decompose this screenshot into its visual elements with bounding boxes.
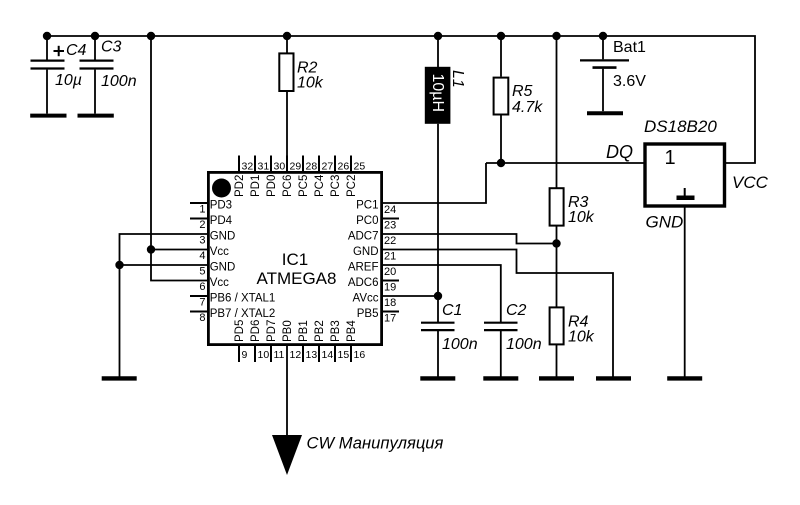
svg-text:30: 30 — [274, 160, 286, 172]
svg-text:7: 7 — [199, 297, 205, 309]
svg-text:AVcc: AVcc — [353, 293, 379, 305]
ground R4 — [539, 376, 574, 380]
svg-text:100n: 100n — [506, 336, 542, 353]
ground C3 — [78, 114, 114, 118]
svg-text:PD0: PD0 — [266, 175, 278, 197]
capacitor C4 — [31, 42, 87, 89]
svg-text:4: 4 — [199, 250, 205, 262]
junction dot Vcc column rail — [147, 32, 155, 40]
svg-text:10: 10 — [258, 349, 270, 361]
junction dot GND pins 3-5 — [115, 261, 123, 269]
svg-text:L1: L1 — [449, 70, 466, 88]
junction dot AVcc C1 — [434, 292, 442, 300]
svg-text:6: 6 — [199, 281, 205, 293]
svg-text:PB6 / XTAL1: PB6 / XTAL1 — [210, 293, 276, 305]
svg-text:C1: C1 — [442, 302, 462, 319]
ground left GND column — [102, 376, 137, 380]
svg-text:18: 18 — [384, 297, 396, 309]
svg-text:DS18B20: DS18B20 — [644, 117, 717, 136]
capacitor C1 — [421, 302, 478, 353]
svg-text:100n: 100n — [442, 336, 478, 353]
IC1 right pin numbers 24-17 — [384, 204, 396, 325]
wire pin21 GND to ground — [383, 250, 613, 377]
svg-text:32: 32 — [242, 160, 254, 172]
IC1 right pin stubs — [383, 219, 399, 312]
svg-text:IC1: IC1 — [282, 250, 308, 269]
svg-text:PB0: PB0 — [282, 320, 294, 342]
ground C2 — [483, 376, 518, 380]
svg-text:2: 2 — [199, 219, 205, 231]
svg-text:PB5: PB5 — [357, 308, 379, 320]
junction dot C3 rail — [91, 32, 99, 40]
svg-text:PC3: PC3 — [330, 175, 342, 197]
wire pin4 Vcc — [151, 249, 208, 251]
svg-text:23: 23 — [384, 220, 396, 232]
svg-text:ADC7: ADC7 — [348, 231, 379, 243]
IC1 left pin numbers 1-8 — [199, 204, 205, 325]
svg-text:28: 28 — [306, 160, 318, 172]
svg-text:27: 27 — [322, 160, 334, 172]
svg-text:Vcc: Vcc — [210, 277, 229, 289]
wire pin22 ADC7 to divider node — [383, 234, 557, 244]
svg-text:14: 14 — [322, 349, 334, 361]
junction dot C4 rail — [43, 32, 51, 40]
capacitor C2 — [484, 302, 542, 353]
svg-text:CW Манипуляция: CW Манипуляция — [307, 434, 444, 453]
svg-text:C3: C3 — [101, 39, 122, 56]
wire C1 to ground — [437, 330, 439, 377]
svg-text:13: 13 — [306, 349, 318, 361]
IC1 bottom pin numbers 9-16 — [242, 349, 366, 361]
capacitor C3 — [80, 39, 137, 91]
wire pin24 PC1 to DQ — [383, 163, 486, 203]
ground symbol inside DS18B20 — [677, 188, 695, 198]
svg-text:10k: 10k — [568, 329, 595, 346]
svg-text:GND: GND — [210, 231, 236, 243]
inductor L1 — [425, 67, 466, 124]
wire C3 lead — [94, 36, 96, 60]
svg-text:PB4: PB4 — [346, 320, 358, 342]
IC1 bottom pin names — [234, 320, 358, 342]
wire R3 to R4 node — [556, 226, 558, 308]
svg-text:PD3: PD3 — [210, 200, 232, 212]
svg-text:PC4: PC4 — [314, 174, 326, 197]
svg-text:10k: 10k — [568, 209, 595, 226]
svg-text:GND: GND — [353, 246, 379, 258]
svg-text:PD7: PD7 — [266, 320, 278, 342]
svg-text:C4: C4 — [66, 42, 87, 59]
wire R2 top lead — [286, 36, 288, 53]
wire DS18B20 GND to ground — [684, 207, 686, 377]
svg-text:PC1: PC1 — [356, 200, 378, 212]
svg-text:3: 3 — [199, 235, 205, 247]
junction dot R5 rail — [497, 32, 505, 40]
svg-text:16: 16 — [354, 349, 366, 361]
ground C1 — [420, 376, 455, 380]
svg-text:GND: GND — [646, 213, 684, 232]
wire R4 to ground — [556, 344, 558, 376]
junction dot R3 rail — [552, 32, 560, 40]
junction dot Vcc pins 4-6 — [147, 245, 155, 253]
wire L1 top lead — [437, 36, 439, 67]
svg-text:PD2: PD2 — [234, 175, 246, 197]
svg-text:8: 8 — [199, 312, 205, 324]
svg-text:VCC: VCC — [732, 173, 769, 192]
svg-text:Bat1: Bat1 — [613, 39, 646, 56]
IC1 top pin names — [234, 174, 358, 197]
wire R3 top lead — [556, 36, 558, 188]
wire R5 top lead — [500, 36, 502, 77]
ground pin21 GND wire — [596, 376, 631, 380]
svg-text:PB2: PB2 — [314, 320, 326, 342]
svg-text:15: 15 — [338, 349, 350, 361]
wire pin20 AREF to C2 — [383, 265, 501, 323]
IC1 left pin stubs — [190, 203, 208, 312]
svg-text:GND: GND — [210, 262, 236, 274]
wire pin12 PB0 to CW output — [286, 346, 288, 438]
svg-text:5: 5 — [199, 266, 205, 278]
svg-text:26: 26 — [338, 160, 350, 172]
wire Vcc column to pins 4 and 6 — [151, 36, 208, 281]
svg-text:PD6: PD6 — [250, 320, 262, 342]
svg-text:31: 31 — [258, 160, 270, 172]
IC1 right pin names — [348, 200, 379, 321]
svg-text:10k: 10k — [297, 74, 324, 91]
svg-text:ATMEGA8: ATMEGA8 — [257, 269, 337, 288]
IC IC1 ATMEGA8 body — [208, 172, 381, 344]
svg-text:PC0: PC0 — [356, 215, 378, 227]
junction dot Bat1 rail — [599, 32, 607, 40]
junction dot divider node — [552, 239, 560, 247]
wire VCC top rail — [47, 36, 755, 163]
temperature sensor DS18B20 body with pin 1 — [645, 144, 725, 206]
svg-text:PC2: PC2 — [346, 175, 358, 197]
node CW output arrow — [272, 435, 302, 475]
resistor R4 — [550, 307, 595, 345]
svg-text:4.7k: 4.7k — [512, 99, 543, 116]
wire Bat1 top lead — [602, 36, 604, 59]
battery Bat1 — [580, 39, 646, 90]
svg-text:29: 29 — [290, 160, 302, 172]
svg-text:12: 12 — [290, 349, 302, 361]
wire C4 to ground — [46, 70, 48, 114]
junction dot R2 rail — [283, 32, 291, 40]
svg-text:ADC6: ADC6 — [348, 277, 379, 289]
wire C3 to ground — [94, 70, 96, 114]
svg-text:PB3: PB3 — [330, 320, 342, 342]
IC1 top pin numbers 32-25 — [242, 160, 366, 172]
svg-text:25: 25 — [354, 160, 366, 172]
svg-text:PD5: PD5 — [234, 320, 246, 342]
junction dot R5 DQ — [497, 159, 505, 167]
svg-text:R5: R5 — [512, 83, 533, 100]
ground DS18B20 — [667, 376, 702, 380]
svg-text:10µ: 10µ — [55, 72, 82, 89]
svg-text:PC5: PC5 — [298, 175, 310, 197]
wire GND column pins 3,5 to ground — [120, 234, 209, 377]
svg-text:17: 17 — [384, 313, 396, 325]
svg-text:Vcc: Vcc — [210, 246, 229, 258]
svg-text:10µH: 10µH — [429, 74, 446, 113]
svg-text:19: 19 — [384, 282, 396, 294]
svg-text:C2: C2 — [506, 302, 527, 319]
IC1 left pin names — [210, 200, 276, 321]
wire pin18 AVcc to C1 node — [383, 295, 438, 297]
resistor R5 — [494, 78, 544, 116]
wire R2 bottom lead to pin29 — [286, 91, 288, 171]
svg-text:22: 22 — [384, 235, 396, 247]
svg-text:1: 1 — [665, 147, 676, 169]
IC1 bottom pin stubs — [239, 346, 351, 362]
ground Bat1 — [587, 111, 623, 115]
svg-text:DQ: DQ — [606, 142, 633, 162]
wire DQ net — [486, 162, 644, 164]
IC1 top pin stubs — [239, 156, 351, 172]
wire pin5 GND — [120, 264, 209, 266]
svg-text:11: 11 — [274, 349, 285, 361]
svg-text:PB7 / XTAL2: PB7 / XTAL2 — [210, 308, 276, 320]
wire C4 lead — [46, 36, 48, 60]
svg-text:20: 20 — [384, 266, 396, 278]
wire R5 bottom lead to DQ — [500, 116, 502, 164]
svg-text:21: 21 — [384, 251, 396, 263]
svg-text:100n: 100n — [101, 73, 137, 90]
svg-text:AREF: AREF — [348, 262, 379, 274]
svg-text:9: 9 — [242, 349, 248, 361]
resistor R2 — [279, 53, 323, 91]
svg-text:PD4: PD4 — [210, 215, 233, 227]
wire Bat1 to ground — [602, 69, 604, 112]
ground C4 — [30, 114, 66, 118]
svg-text:PC6: PC6 — [282, 175, 294, 197]
svg-text:PD1: PD1 — [250, 175, 262, 197]
junction dot L1 rail — [434, 32, 442, 40]
svg-text:1: 1 — [199, 204, 205, 216]
svg-text:3.6V: 3.6V — [613, 73, 646, 90]
wire L1 bottom lead to C1 — [437, 124, 439, 323]
svg-text:PB1: PB1 — [298, 320, 310, 342]
wire C2 to ground — [500, 330, 502, 377]
resistor R3 — [550, 188, 595, 226]
svg-text:24: 24 — [384, 204, 396, 216]
